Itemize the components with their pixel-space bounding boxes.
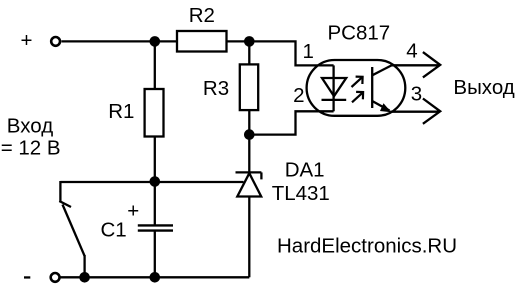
- svg-text:Выход: Выход: [453, 76, 514, 99]
- junction REF: [150, 176, 161, 187]
- svg-text:R2: R2: [189, 4, 215, 27]
- switch S1: [59, 181, 84, 277]
- wire REF rail (switch corner to TL431 reference): [60, 181, 243, 183]
- wire node B to optocoupler pin 1: [249, 41, 333, 65]
- resistor R2: [177, 31, 227, 52]
- svg-text:3: 3: [411, 83, 422, 106]
- svg-text:1: 1: [303, 40, 314, 63]
- svg-text:Вход: Вход: [7, 115, 53, 138]
- TL431 DA1 (cathode bar, tick, triangle): [236, 172, 262, 196]
- svg-text:+: +: [21, 29, 33, 52]
- wire node B down to R3: [248, 41, 250, 64]
- svg-text:PC817: PC817: [328, 22, 391, 45]
- light arrow 2: [352, 92, 363, 102]
- LED inside PC817: [322, 65, 347, 111]
- wire R1 bottom to REF rail: [154, 137, 156, 183]
- wire pin 3 output with arrow: [390, 99, 440, 124]
- resistor R1: [145, 89, 164, 137]
- junction K: [244, 129, 255, 140]
- wire node K to optocoupler pin 2: [249, 111, 333, 134]
- terminal + (input): [51, 37, 60, 46]
- svg-text:4: 4: [406, 39, 417, 62]
- light arrow 1: [352, 77, 363, 87]
- wire C1 bottom lead: [154, 231, 156, 277]
- wire TL431 anode to bottom rail: [248, 197, 250, 278]
- wire bottom rail: [60, 276, 249, 278]
- svg-text:DA1: DA1: [285, 159, 325, 182]
- phototransistor emitter arrowhead: [380, 103, 391, 112]
- junction B: [244, 36, 255, 47]
- svg-text:R3: R3: [203, 77, 229, 100]
- junction C1 bottom: [150, 272, 161, 283]
- phototransistor inside PC817: [372, 65, 392, 110]
- svg-text:R1: R1: [108, 100, 134, 123]
- wire R3 bottom to node K: [248, 110, 250, 135]
- wire top rail (+ terminal to node B): [62, 40, 250, 42]
- capacitor C1: [138, 225, 173, 230]
- wire C1 top lead: [154, 182, 156, 225]
- optocoupler U1 PC817 body: [307, 60, 406, 116]
- resistor R3: [240, 64, 258, 110]
- label -: [24, 276, 30, 278]
- svg-text:+: +: [127, 199, 139, 222]
- svg-text:C1: C1: [101, 219, 127, 242]
- junction A: [150, 36, 161, 47]
- wire pin 4 output with arrow: [391, 52, 440, 77]
- terminal - (input): [51, 273, 60, 282]
- svg-text:= 12 В: = 12 В: [1, 137, 61, 160]
- junction switch bottom: [79, 272, 90, 283]
- svg-text:2: 2: [293, 84, 304, 107]
- svg-text:TL431: TL431: [272, 182, 330, 205]
- svg-text:HardElectronics.RU: HardElectronics.RU: [277, 234, 457, 257]
- wire node K down to TL431 cathode: [248, 135, 250, 173]
- wire junction A down to R1: [154, 41, 156, 89]
